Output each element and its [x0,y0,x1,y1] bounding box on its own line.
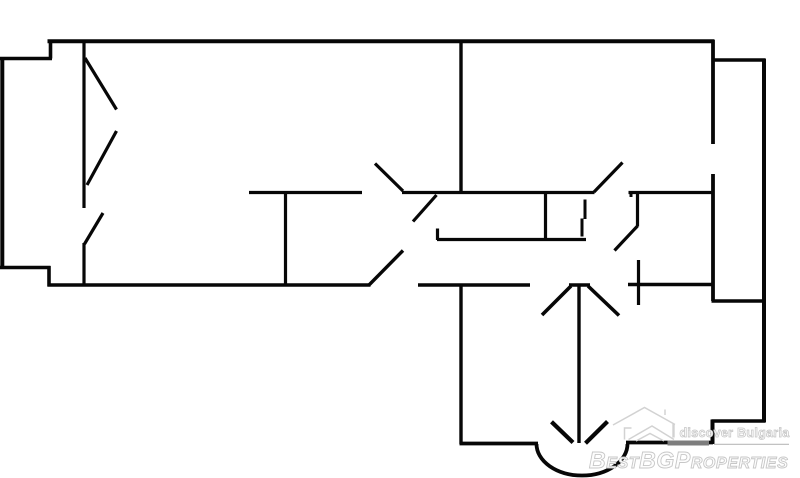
entry arrow head right stroke [586,422,608,444]
entrance door arc [537,444,628,476]
wall vertical x461 lower (entry corridor) [459,284,462,444]
wall vertical x461 upper [459,40,462,192]
wall partition y192 right segment [629,191,715,194]
wall bottom of left section [48,283,371,287]
entry arrow upper-right diagonal [588,286,619,316]
wall right inner x713 lower [711,174,715,301]
watermark gray overlay on wall [668,441,710,446]
door leaf diagonal below y192 [413,195,437,222]
closet door diagonal x637 [615,226,638,251]
wall bottom right of entrance [626,441,713,445]
wall bottom y285 right segment [628,283,712,287]
balcony bottom wall y301 [712,299,766,302]
closet wall vertical x637 [636,193,639,227]
svg-text:BestBGProperties: BestBGProperties [589,447,788,473]
watermark house roof outer [613,408,675,426]
door leaf diagonal at bottom hall [369,251,403,286]
wall top-left step vertical [49,40,53,59]
jog wall upper x585 [584,200,587,220]
wall vertical x545 [544,191,547,240]
wall top outer [48,39,715,43]
entry arrow upper-left diagonal [542,286,571,315]
closet door diagonal A [85,58,117,110]
wall y239 (wc partition) [437,238,586,241]
wall bottom-left step vertical [47,266,51,287]
wall bottom y285 middle segment [418,283,530,287]
wall closet front x84 lower [82,243,85,286]
wall partition vertical x285 [284,191,287,286]
watermark house roof middle [629,426,675,440]
wall top-left step horizontal [0,57,52,61]
door leaf diagonal room divider [375,164,403,192]
watermark house roof inner [636,434,664,442]
wall bottom-right notch vertical x712 [711,420,715,445]
wall left outer [0,57,4,269]
watermark house corner mark [625,428,632,440]
door leaf diagonal up-right at x594 [594,163,623,193]
entry arrow apex bar [569,283,590,286]
wall partition y192 left segment [249,191,362,194]
jog wall lower x582 [581,219,584,237]
entry arrow head left stroke [552,422,574,443]
closet door diagonal B [87,131,117,185]
door frame tick crossing right bottom wall [637,260,640,305]
wall closet front x84 upper [82,40,85,208]
wall partition y192 middle segment [402,191,595,194]
wall right outer x764 [762,59,766,423]
watermark house chimney [664,410,666,416]
entry arrow shaft [577,286,580,443]
watermark separator bar [672,424,674,438]
door frame tick at x437 [436,229,439,241]
watermark faint underline right [714,443,789,445]
wall right inner x713 upper [711,40,715,144]
tick down at x630 [630,192,633,197]
wall bottom-left step horizontal [0,266,51,270]
closet door diagonal C [85,213,104,244]
balcony top wall y60 [712,58,766,61]
wall bottom left of entrance [460,442,539,446]
svg-text:discover Bulgaria: discover Bulgaria [680,426,791,440]
wall bottom-right notch horizontal y421 [712,419,766,423]
